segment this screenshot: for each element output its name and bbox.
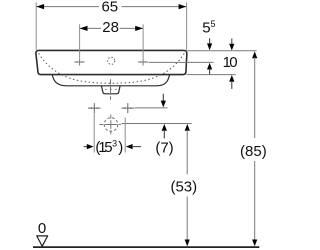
svg-text:65: 65 [101,0,118,15]
dimension (15^3) left arrow [84,144,94,149]
svg-text:(7): (7) [155,139,173,156]
tap hole axis extension line to the right [149,61,214,63]
svg-text:(53): (53) [170,178,197,195]
dimension (15^3) extension line left [93,113,95,153]
floor line [33,246,259,248]
fixing hole axis extension line to the right [135,107,168,109]
svg-text:(85): (85) [240,143,267,160]
datum level triangle [37,236,48,246]
dimension 10 arrows [229,39,234,89]
svg-text:(153): (153) [95,139,123,156]
tap hole crosshair right [138,58,148,65]
dimension (15^3) extension line right [124,118,126,153]
dimension (7) top arrow [161,94,166,108]
dimension 65: extension lines [35,2,37,50]
drain hidden dashes inside box [105,88,117,90]
tap hole crosshair left [74,58,84,65]
drain hole vertical centerline [110,115,112,135]
dimension 28: extension lines [79,24,81,58]
fixing hole crosshair right [122,103,135,113]
bowl underside band [52,75,169,86]
rim bottom extension line to the right [187,74,236,76]
drain centerline (vertical dash-dot) [110,79,112,100]
dimension (85) line with arrows [252,51,257,246]
dimension (15^3) right arrow [126,144,141,149]
dimension (7) bottom arrow [162,124,167,139]
overflow hole (dashed circle on deck) [108,57,115,64]
fixing hole crosshair left [88,103,101,113]
dimension 28: dimension line with arrows [80,26,143,31]
hidden bowl contour (dashed) [39,53,185,83]
drain trap box [101,86,120,94]
svg-text:0: 0 [38,220,46,237]
dimension 5^5 arrows [207,38,212,74]
drain axis dimension line to the right [122,123,192,125]
drain hole (dashed circle, bottom view) [104,118,118,132]
svg-text:10: 10 [223,54,238,71]
svg-text:28: 28 [102,19,119,36]
drain hole horizontal centerline [99,124,121,126]
washbasin rim outline (front view) [36,50,187,74]
dimension (53) line with arrows [185,124,190,246]
dimension 65: dimension line with arrows [36,4,186,9]
top edge extension line to the right [187,50,256,52]
